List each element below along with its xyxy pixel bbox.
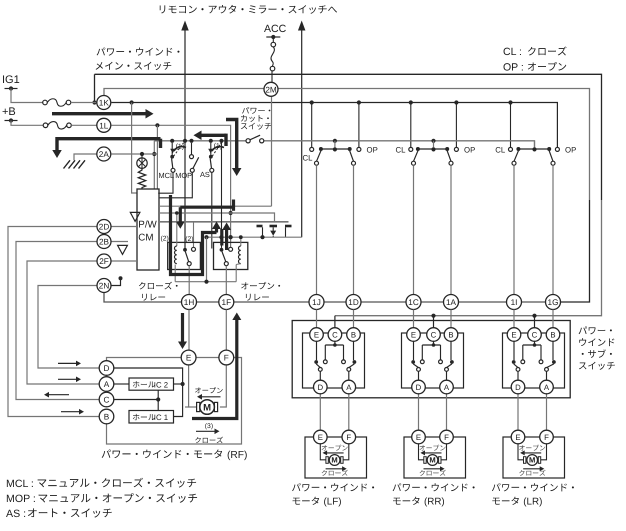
- connector pin F: [540, 430, 554, 444]
- wire: relay coil common line y=283: [175, 281, 236, 283]
- wire: 2N to pin bus 1H..1G: [104, 293, 546, 302]
- wire 2F loop to pin A of RF motor: [27, 261, 99, 384]
- flow arrow: +B feed right: [52, 112, 149, 115]
- node IG1 terminal: [9, 86, 13, 90]
- junction 1K bus x=358.9: [357, 100, 361, 104]
- svg-text:2D: 2D: [99, 222, 110, 231]
- svg-text:MCL :: MCL :: [6, 478, 34, 490]
- svg-text:A: A: [346, 383, 352, 392]
- flow arrow: coil drive into close relay: [180, 206, 233, 209]
- wire unit2 outputs down to pins: [413, 165, 415, 294]
- fuse F_B: [43, 123, 48, 128]
- flow arrow: elbow at power cut switch: [224, 134, 227, 146]
- wire 1K bus drop to contact x=311.7: [311, 103, 313, 148]
- connector pin E: [407, 328, 421, 342]
- wire: 1L feed (y=125.3) to open relay contact: [112, 125, 231, 247]
- wire E to motor: [189, 365, 197, 407]
- transistor Q1 (motor drive FET) channel: [257, 225, 263, 228]
- svg-text:1H: 1H: [184, 298, 195, 307]
- svg-text:M: M: [529, 456, 535, 465]
- connector pin 1I: [507, 295, 522, 310]
- wire: 1L drop into P/W CM: [156, 125, 158, 189]
- label power window motor RF: [102, 449, 222, 458]
- sub-switch LF bracket: [334, 341, 336, 345]
- RLY1 coil: [176, 213, 178, 246]
- connector pin F: [219, 350, 234, 365]
- label power window sub switch: [579, 326, 612, 334]
- sub-switch LR feeds from pins: [513, 310, 515, 328]
- switch CL/OP unit1 OP contact: [357, 147, 361, 151]
- switch CL/OP unit2 CL contact: [409, 147, 413, 151]
- svg-text:1I: 1I: [511, 298, 518, 307]
- sub switch outer box: [292, 321, 570, 398]
- sub-switch RR levers: [413, 364, 418, 368]
- svg-text:1A: 1A: [446, 298, 457, 307]
- svg-text:1J: 1J: [312, 298, 321, 307]
- svg-text:M: M: [203, 402, 211, 413]
- svg-text:C: C: [332, 330, 338, 339]
- svg-text:A: A: [544, 383, 550, 392]
- sub-switch LR bracket: [534, 341, 536, 345]
- svg-text:C: C: [431, 330, 437, 339]
- label power window motor LR: [492, 483, 574, 491]
- Q1 source lead: [285, 227, 287, 237]
- wire F to RF frame loop to B: [107, 358, 242, 445]
- sub-switch RR bracket: [433, 341, 435, 345]
- svg-text:2F: 2F: [99, 257, 109, 266]
- junction 1K bus x=410.8: [409, 100, 413, 104]
- svg-text:E: E: [186, 353, 192, 362]
- unit3 bracket: [518, 148, 549, 150]
- unit3 common stub: [534, 141, 536, 147]
- svg-text:AS :: AS :: [6, 508, 26, 520]
- arrow on A row: [58, 378, 77, 380]
- junction drive line x=221.5: [219, 235, 223, 239]
- svg-text:OP :: OP :: [503, 61, 524, 73]
- motor box LR: [503, 437, 565, 478]
- sub-switch LR box: [503, 333, 565, 388]
- unit1 common stub: [334, 141, 336, 147]
- svg-text:MCL: MCL: [159, 171, 175, 180]
- connector pin C: [99, 392, 114, 407]
- connector pin D: [99, 361, 114, 376]
- svg-text:P/W: P/W: [138, 220, 157, 231]
- wire: drive line y=237: [207, 236, 302, 238]
- connector pin 2D: [97, 220, 111, 234]
- unit3 levers: [514, 151, 518, 162]
- switch SW_cut (power cut switch): [246, 139, 250, 143]
- connector pin F: [342, 430, 356, 444]
- junction drive line x=230.6: [229, 235, 233, 239]
- connector pin 1C: [406, 295, 421, 310]
- sub-switch LR levers: [514, 364, 518, 368]
- label: remote outer mirror switch (title): [160, 5, 337, 14]
- Q1 drain lead: [262, 227, 264, 237]
- switch MOP (manual open): [191, 143, 193, 155]
- switch CL/OP unit2 OP contact: [454, 147, 458, 151]
- svg-text:C: C: [104, 395, 110, 404]
- connector pin A: [440, 380, 454, 394]
- svg-text:E: E: [411, 330, 416, 339]
- svg-text:E: E: [318, 433, 323, 442]
- arrow on B row: [61, 411, 80, 413]
- svg-text:1L: 1L: [99, 121, 109, 130]
- svg-text:IG1: IG1: [2, 74, 20, 86]
- unit2 levers: [414, 151, 418, 162]
- connector pin 1A: [444, 295, 459, 310]
- svg-text:OP: OP: [565, 146, 576, 155]
- arrow: AS actuate arc: [212, 147, 224, 151]
- junction lamp feed: [140, 152, 144, 156]
- svg-text:OP: OP: [464, 146, 475, 155]
- wire: bus end drop into P/W CM: [153, 141, 155, 189]
- ground: [64, 160, 71, 168]
- wire unit1 outputs down to pins: [316, 165, 318, 294]
- connector pin D: [511, 380, 525, 394]
- svg-text:B: B: [104, 412, 110, 421]
- svg-text:CL: CL: [303, 154, 314, 163]
- wire 2D loop to pin B of RF motor: [8, 227, 99, 417]
- RLY2 coil: [240, 237, 242, 246]
- label open in LF: [322, 445, 348, 451]
- motor M_LF: [326, 457, 328, 464]
- wire F to motor: [220, 365, 226, 407]
- junction drive line x=206.5: [204, 235, 208, 239]
- arrow on C row: [48, 394, 69, 396]
- connector pin C: [328, 328, 342, 342]
- switch CL/OP unit3 OP contact: [555, 147, 559, 151]
- svg-text:AS: AS: [200, 170, 210, 179]
- wire 1F to F: [225, 310, 227, 351]
- unit2 bracket: [418, 148, 447, 150]
- svg-text:2A: 2A: [99, 150, 110, 159]
- svg-text:MOP :: MOP :: [6, 493, 36, 505]
- sub-switch LF feeds from pins: [316, 310, 318, 328]
- junction 2A line / drop: [152, 152, 156, 156]
- svg-text:M: M: [331, 456, 337, 465]
- wire: 2M drop to CM and relay common: [271, 97, 273, 206]
- svg-text:(RF): (RF): [227, 450, 247, 461]
- svg-text:D: D: [317, 383, 323, 392]
- connector pin 2M: [264, 82, 278, 96]
- wire E to motor LF: [320, 444, 326, 460]
- connector pin E: [511, 430, 525, 444]
- wire 2A to ground: [74, 154, 97, 160]
- wire: CM to 2M line: [159, 205, 272, 207]
- junction 1K bus x=131.6: [130, 100, 134, 104]
- svg-text:1F: 1F: [222, 298, 232, 307]
- arrow on D row: [58, 362, 77, 364]
- flow arrow: through open relay contact: [225, 229, 228, 250]
- svg-text:MOP: MOP: [175, 171, 192, 180]
- junction common bus / CL-OP unit1 common: [333, 139, 337, 143]
- flow arrow: stub into open relay fixed contact: [220, 229, 223, 246]
- label: power cut switch: [242, 107, 270, 114]
- junction common bus / CL-OP unit2 common: [431, 139, 435, 143]
- svg-text:M: M: [429, 456, 435, 465]
- switch CL/OP unit1 CL contact: [310, 147, 314, 151]
- connector pin E: [412, 430, 426, 444]
- wire F to motor LR: [541, 444, 547, 460]
- connector pin A: [540, 380, 554, 394]
- svg-text:E: E: [511, 330, 516, 339]
- svg-text:(RR): (RR): [424, 497, 445, 508]
- wire E to motor LR: [518, 444, 524, 460]
- flow arrow: bold drop into CM: [159, 139, 162, 148]
- svg-text:F: F: [444, 433, 449, 442]
- relay RLY2 open relay box: [214, 242, 248, 269]
- fuse F_ACC: [271, 42, 276, 47]
- Q1 body arrow: [272, 227, 274, 231]
- svg-text:OP: OP: [367, 146, 378, 155]
- connector pin D: [412, 380, 426, 394]
- connector pin B: [444, 328, 458, 342]
- label open in RR: [419, 445, 445, 451]
- label close relay: [139, 282, 178, 290]
- wire: net-A left drop to 1K wire: [94, 74, 96, 102]
- wire E-F link and E to D: [107, 358, 182, 361]
- junction drive line x=262.5: [260, 235, 264, 239]
- connector pin 1H: [182, 295, 197, 310]
- flow arrow: close current down to E: [181, 313, 184, 343]
- connector pin 1L: [97, 118, 111, 132]
- svg-text:D: D: [104, 364, 110, 373]
- wire IC2 to D loop: [174, 383, 183, 385]
- wire: close relay NC feed from CM: [193, 222, 195, 248]
- svg-text:D: D: [515, 383, 521, 392]
- label: power window main switch: [97, 47, 180, 55]
- connector pin E: [310, 328, 324, 342]
- wire: remote-mirror feed right (from motor drive line): [301, 29, 303, 237]
- junction coil common / drop: [204, 280, 208, 284]
- svg-text:IC 2: IC 2: [154, 380, 168, 389]
- svg-text:ACC: ACC: [264, 23, 287, 35]
- svg-text:+B: +B: [2, 106, 16, 118]
- flow arrow: to ground via 2A: [57, 139, 161, 152]
- svg-text:F: F: [224, 353, 229, 362]
- wire IC2-IC1 link: [157, 390, 159, 410]
- wire AS output to drive line: [211, 172, 213, 248]
- junction 1L drop / gate line: [229, 211, 233, 215]
- direction triangle near CM input: [130, 212, 140, 221]
- fuse F_IG1: [43, 100, 48, 105]
- wire: remote-mirror feed left (from close relay output): [184, 29, 186, 250]
- connector pin E: [181, 350, 196, 365]
- label open relay: [241, 282, 280, 289]
- wire A row to IC2: [114, 383, 129, 385]
- svg-text:1K: 1K: [99, 98, 110, 107]
- svg-text:1G: 1G: [548, 298, 559, 307]
- svg-text:E: E: [314, 330, 319, 339]
- junction common bus / AS feed: [209, 139, 213, 143]
- wire: drive line drop to relay common line: [206, 237, 208, 282]
- svg-text:A: A: [444, 383, 450, 392]
- wire 1K bus drop to contact x=510.5: [510, 103, 512, 148]
- sub-switch LF levers: [316, 364, 320, 368]
- svg-text:(LF): (LF): [324, 497, 342, 508]
- svg-text:2B: 2B: [99, 237, 110, 246]
- connector pin 2A: [97, 147, 111, 161]
- connector pin 1J: [309, 295, 324, 310]
- connector pin B: [546, 328, 560, 342]
- wire unit3 outputs down to pins: [513, 165, 515, 294]
- switch MCL (manual close): [171, 143, 173, 155]
- connector pin E: [314, 430, 328, 444]
- label close direction: [196, 430, 216, 432]
- svg-text:E: E: [416, 433, 421, 442]
- sub-switch RR feeds from pins: [413, 310, 415, 328]
- wire: net-B battery feed (y=88.5) from 1K to pin row: [104, 89, 590, 201]
- connector pin E: [507, 328, 521, 342]
- wire F to motor LF: [343, 444, 349, 460]
- svg-text:CL: CL: [495, 146, 506, 155]
- svg-text:D: D: [416, 383, 422, 392]
- svg-text:CL :: CL :: [503, 46, 522, 58]
- junction 1L / main switch feed: [155, 123, 159, 127]
- wire fuse to 2M: [271, 71, 273, 82]
- svg-text:1C: 1C: [408, 298, 419, 307]
- svg-text:(3): (3): [205, 423, 213, 430]
- connector pin B: [99, 409, 114, 424]
- hall sensor IC2 box: [129, 378, 174, 390]
- junction common bus / MOP feed: [189, 139, 193, 143]
- wire 1K to P/W CM: [132, 103, 137, 194]
- sub-switch LR fixed contacts: [513, 341, 515, 360]
- junction 1K bus x=456.4: [454, 100, 458, 104]
- unit1 bracket: [321, 148, 350, 150]
- relay RLY1 close relay box: [168, 242, 201, 269]
- unit1 levers: [317, 151, 321, 162]
- junction common bus / MCL feed: [170, 139, 174, 143]
- connector pin 1D: [346, 295, 361, 310]
- connector pin 1G: [546, 295, 561, 310]
- motor M_RR: [424, 457, 426, 464]
- label close in LR: [523, 468, 541, 470]
- wire 2D to CM: [112, 226, 138, 228]
- wire IG1 to fuse: [11, 89, 43, 103]
- junction 1K bus x=311.7: [310, 100, 314, 104]
- RLY2 contact: [220, 248, 224, 252]
- connector pin A: [99, 377, 114, 392]
- arrow: MCL actuate arc: [174, 147, 186, 151]
- wire RLY2 output to 1F: [225, 266, 227, 295]
- wire: 1K feed bus (y=102.5) to CL/OP contacts: [112, 103, 558, 148]
- junction 1K bus x=510.5: [508, 100, 512, 104]
- switch AS (auto switch): [210, 143, 212, 155]
- svg-text:2M: 2M: [265, 85, 277, 94]
- sub-switch LR outputs to motor: [517, 394, 519, 431]
- wire: CM gate line: [159, 213, 275, 222]
- switch CL/OP unit3 CL contact: [509, 147, 513, 151]
- label open direction: [195, 387, 223, 393]
- wire ACC to fuse: [272, 37, 274, 42]
- svg-text:A: A: [104, 380, 110, 389]
- label power window motor RR: [393, 483, 475, 491]
- svg-text:2N: 2N: [99, 281, 110, 290]
- wire E to motor RR: [419, 444, 424, 460]
- svg-text:B: B: [448, 330, 453, 339]
- wire C row to IC link: [114, 399, 158, 401]
- control module U1 P/W CM: [137, 189, 159, 270]
- flow arrow: close relay energize path: [171, 195, 217, 275]
- label power window motor LF: [292, 483, 374, 491]
- svg-text:CL: CL: [396, 146, 407, 155]
- svg-text:CM: CM: [138, 233, 153, 244]
- svg-text:IC 1: IC 1: [154, 413, 168, 422]
- connector pin 2B: [97, 235, 111, 249]
- svg-text:C: C: [532, 330, 538, 339]
- sub-switch LF box: [303, 333, 365, 388]
- junction common bus / close-relay line: [183, 139, 187, 143]
- label close in RR: [424, 468, 442, 470]
- wire RLY1 output to 1H: [188, 266, 190, 295]
- wire 2A to lamp branch: [112, 153, 158, 155]
- wire: open relay contact feed: [221, 141, 223, 248]
- wire 1K bus drop to contact x=358.9: [358, 103, 360, 148]
- node ACC terminal: [271, 35, 275, 39]
- wire: switch common bus left segment: [154, 140, 246, 142]
- wire 1K bus drop to contact x=410.8: [410, 103, 412, 148]
- wire 2F to CM: [112, 260, 138, 262]
- svg-text:F: F: [544, 433, 549, 442]
- motor M_LR: [524, 457, 526, 464]
- sub-switch LF outputs to motor: [319, 394, 321, 431]
- wire: CM source line / gate bar: [159, 221, 289, 223]
- connector pin A: [342, 380, 356, 394]
- label close in LF: [326, 468, 344, 470]
- connector pin F: [440, 430, 454, 444]
- resistor R1: [138, 168, 145, 189]
- svg-text:B: B: [550, 330, 555, 339]
- node +B terminal: [9, 118, 13, 122]
- wire 1H to E: [188, 310, 190, 351]
- unit2 common stub: [433, 141, 435, 147]
- label open in LR: [519, 445, 545, 451]
- wire fuse to 1K: [71, 102, 97, 104]
- direction triangle near 2B: [118, 245, 128, 254]
- RLY1 contact: [183, 248, 187, 252]
- wire 2N stub with node: [112, 279, 121, 285]
- junction net-A / C3: [532, 314, 536, 318]
- sub-switch LF fixed contacts: [316, 341, 318, 360]
- wire 2B loop to pin C of RF motor: [16, 242, 99, 400]
- svg-text:(LR): (LR): [523, 497, 542, 508]
- svg-text:B: B: [351, 330, 356, 339]
- svg-text:E: E: [515, 433, 520, 442]
- connector pin C: [528, 328, 542, 342]
- svg-text:(2): (2): [161, 235, 169, 242]
- wire MOP output to P/W CM: [160, 172, 193, 198]
- junction 1L drop / drive line: [229, 235, 233, 239]
- wire: net-A ignition feed (y=74) to sub-switch C commons: [95, 74, 602, 200]
- wire 2N loop to pin D of RF motor: [38, 286, 99, 369]
- flow arrow: close current from motor up to 1F side: [192, 319, 237, 419]
- wire +B to fuse: [11, 121, 43, 126]
- wire fuse to 1L: [71, 124, 96, 126]
- motor box RR: [404, 437, 466, 478]
- junction common bus / open-relay contact line: [219, 139, 223, 143]
- connector pin C: [427, 328, 441, 342]
- hall sensor IC1 box: [129, 411, 174, 424]
- sub-switch RR outputs to motor: [418, 394, 420, 431]
- svg-text:1D: 1D: [348, 298, 359, 307]
- svg-text:F: F: [346, 433, 351, 442]
- wire D loop to IC1: [114, 368, 183, 417]
- junction net-A / C2: [431, 314, 435, 318]
- wire 2B stub: [112, 241, 129, 243]
- wire: switch common bus right segment to sub commons: [264, 141, 535, 148]
- wire F to motor RR: [441, 444, 446, 460]
